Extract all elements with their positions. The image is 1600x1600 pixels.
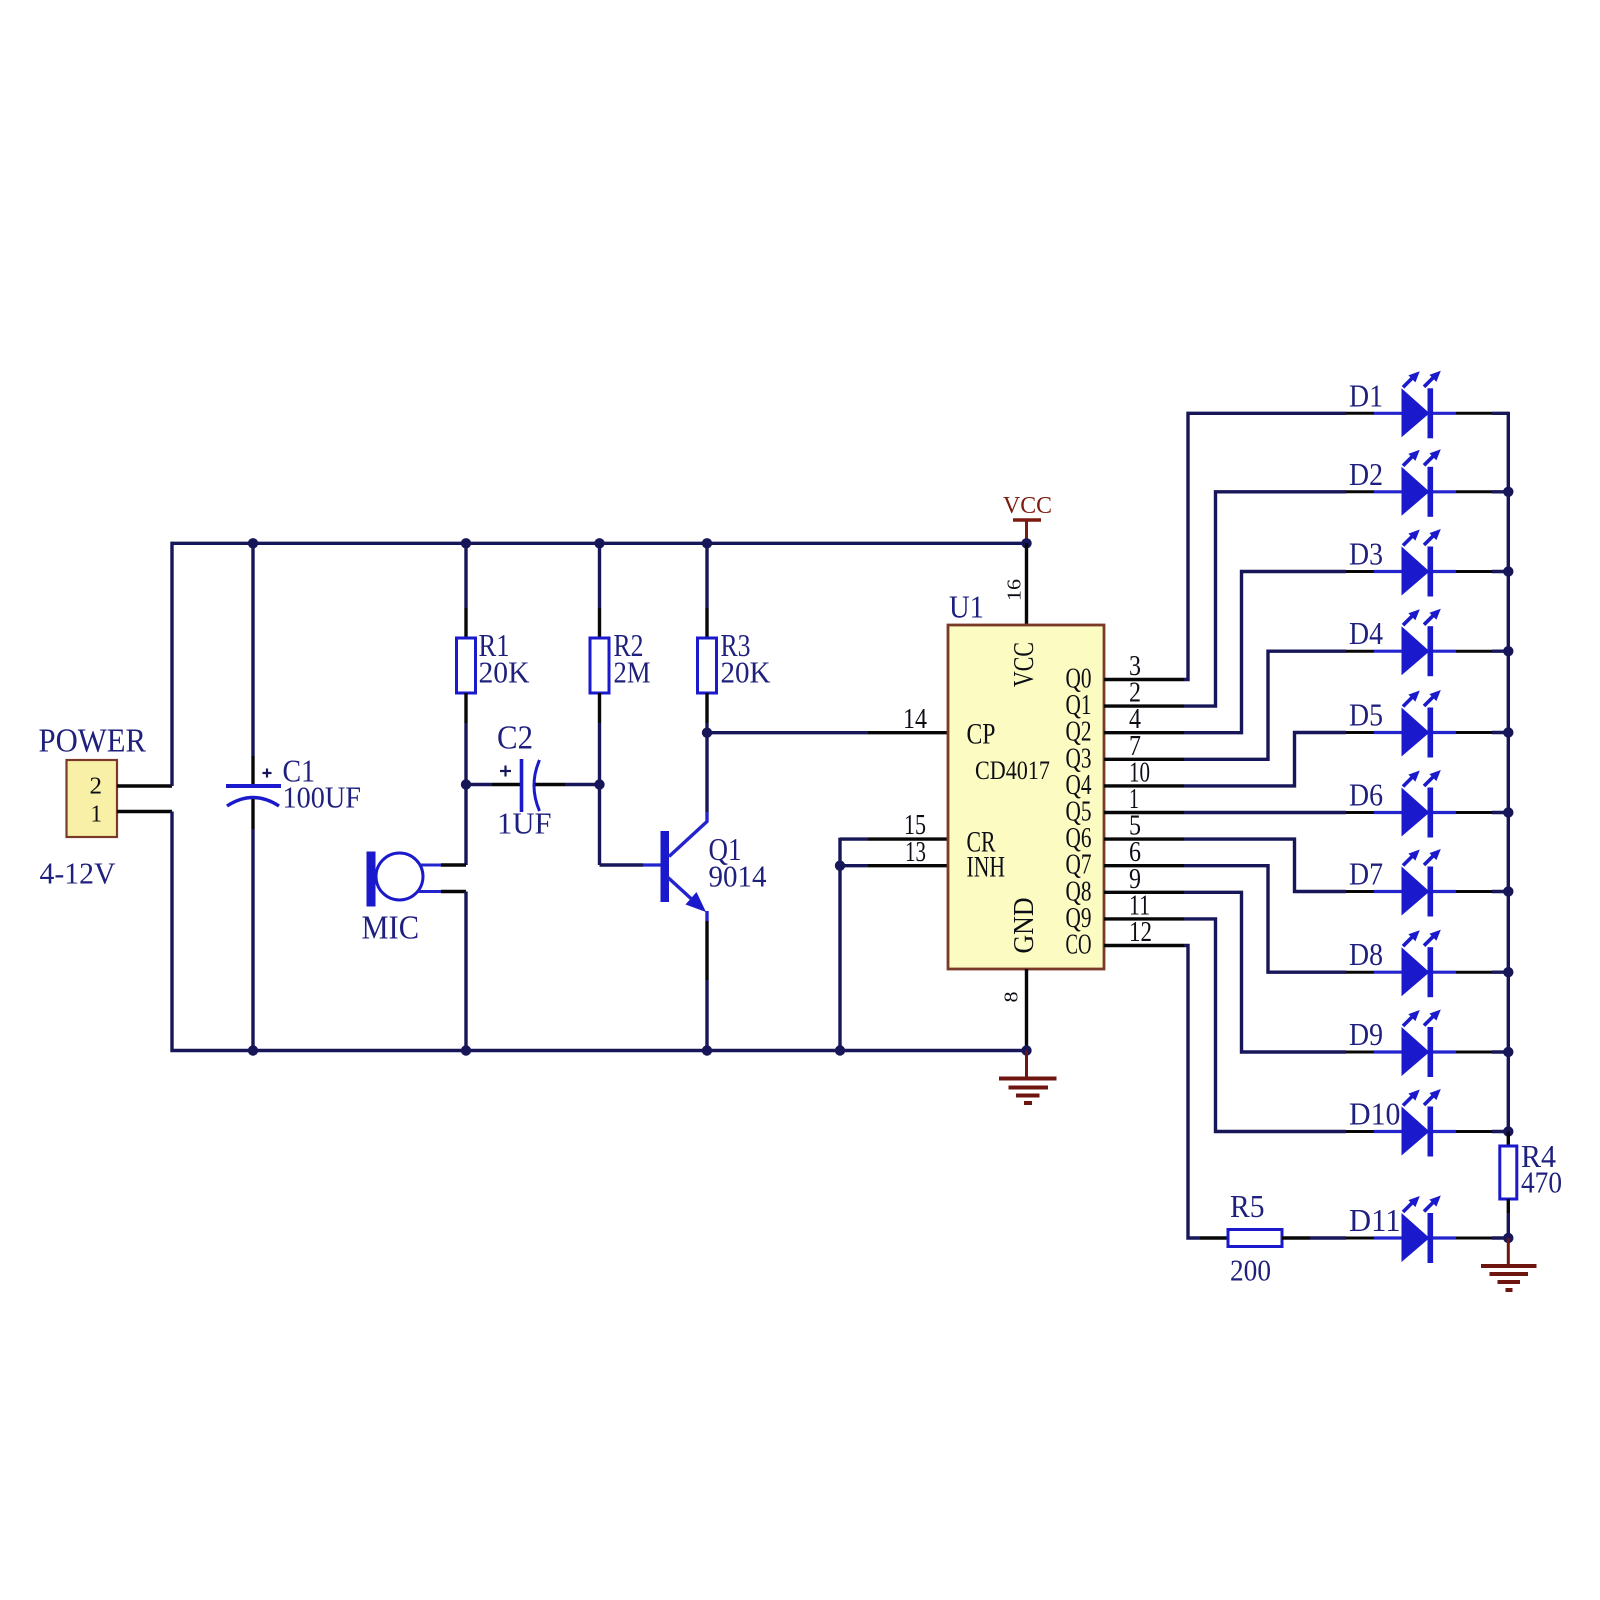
LED D2	[1346, 449, 1492, 517]
node top rail / R3	[702, 538, 712, 548]
wire R5 to D11	[1310, 1236, 1346, 1239]
node right rail / D10	[1503, 1126, 1513, 1136]
wire pin 11 route to D10	[1184, 919, 1346, 1132]
node right rail / D8	[1503, 967, 1513, 977]
U1 pin 6 stub	[1104, 864, 1184, 867]
wire D8 cathode to rail	[1492, 971, 1508, 974]
node R1 / C2 junction	[461, 779, 471, 789]
U1 pin 5 stub	[1104, 837, 1184, 840]
U1 pin 2 stub	[1104, 704, 1184, 707]
wire pin 2 route to D2	[1184, 492, 1346, 706]
node top rail / C1	[248, 538, 258, 548]
wire CR net	[840, 837, 868, 840]
ground symbol (right)	[1481, 1238, 1537, 1290]
wire C2 left net	[466, 783, 492, 786]
wire pin 3 route to D1	[1184, 413, 1346, 679]
node right rail / D9	[1503, 1047, 1513, 1057]
svg-text:12: 12	[1129, 917, 1152, 948]
connector POWER (2-pin header)	[67, 760, 118, 837]
wire pin 7 route to D4	[1184, 651, 1346, 759]
wire base row	[600, 863, 644, 866]
node right rail / D5	[1503, 727, 1513, 737]
U1 pin 4 stub	[1104, 731, 1184, 734]
svg-text:1: 1	[91, 802, 103, 828]
resistor R2	[590, 638, 609, 693]
node R3 / CP junction	[702, 728, 712, 738]
wire R1 to C2 junction	[464, 723, 467, 785]
node bottom rail / C1	[248, 1045, 258, 1055]
LED D7	[1346, 849, 1492, 917]
svg-text:13: 13	[905, 837, 926, 868]
R5 right pin stub	[1282, 1236, 1310, 1239]
svg-text:D8: D8	[1349, 936, 1383, 972]
node GND junction	[1021, 1045, 1031, 1055]
U1 pin 15 stub (CR)	[868, 837, 948, 840]
svg-text:VCC: VCC	[1009, 642, 1040, 687]
svg-text:POWER: POWER	[39, 723, 147, 760]
svg-text:9014: 9014	[709, 859, 767, 894]
node top rail / R2	[594, 538, 604, 548]
node right rail / D6	[1503, 807, 1513, 817]
capacitor C2 (1UF)	[522, 759, 540, 812]
wire connector pin1	[117, 810, 172, 813]
R3 bottom pin stub	[705, 693, 708, 723]
svg-text:D4: D4	[1349, 615, 1383, 651]
U1 pin 11 stub	[1104, 917, 1184, 920]
U1 pin 8 stub	[1025, 969, 1028, 1051]
U1 pin 13 stub (INH)	[868, 864, 948, 867]
svg-text:INH: INH	[967, 851, 1006, 884]
svg-text:D3: D3	[1349, 536, 1383, 572]
node right rail / D11	[1503, 1233, 1513, 1243]
svg-text:R5: R5	[1230, 1188, 1265, 1224]
LED D5	[1346, 690, 1492, 758]
R1 top pin stub	[464, 608, 467, 638]
wire MIC top stub	[441, 863, 466, 866]
node C2 / R2 junction	[594, 779, 604, 789]
svg-text:D6: D6	[1349, 777, 1383, 813]
wire right cathode rail	[1507, 412, 1510, 1132]
wire R4 to D11 node	[1507, 1213, 1510, 1238]
svg-text:16: 16	[1004, 579, 1026, 601]
wire D5 cathode to rail	[1492, 731, 1508, 734]
node VCC junction	[1021, 538, 1031, 548]
wire left vertical up	[170, 542, 173, 786]
wire pin 10 route to D5	[1184, 733, 1346, 786]
wire R3 to CP junction	[705, 723, 708, 733]
capacitor C1 (electrolytic, 100UF)	[226, 786, 281, 806]
wire pin 9 route to D9	[1184, 892, 1346, 1052]
wire D2 cathode to rail	[1492, 490, 1508, 493]
LED D1	[1346, 371, 1492, 439]
svg-text:D5: D5	[1349, 697, 1383, 733]
R1 bottom pin stub	[464, 693, 467, 723]
wire pin 12 route to R5	[1184, 946, 1200, 1239]
wire Q5 net to D6	[1184, 811, 1346, 814]
svg-text:C2: C2	[497, 720, 533, 757]
LED D6	[1346, 770, 1492, 838]
wire MIC bottom stub	[441, 890, 466, 893]
node bottom rail / MIC column	[461, 1045, 471, 1055]
svg-text:1UF: 1UF	[497, 806, 552, 841]
wire R3 junction down to Q1 collector	[705, 733, 708, 812]
LED D9	[1346, 1010, 1492, 1078]
LED D11	[1346, 1196, 1492, 1264]
C1 top pin stub	[251, 756, 254, 786]
svg-text:CO: CO	[1066, 930, 1092, 961]
wire connector pin2	[117, 784, 172, 787]
svg-text:D10: D10	[1349, 1096, 1401, 1132]
svg-text:4-12V: 4-12V	[40, 856, 117, 891]
R3 top pin stub	[705, 608, 708, 638]
wire pin 4 route to D3	[1184, 572, 1346, 733]
Q1 emitter stub	[705, 921, 708, 980]
U1 pin 10 stub	[1104, 784, 1184, 787]
wire R3 top net	[705, 543, 708, 608]
wire D4 cathode to rail	[1492, 650, 1508, 653]
svg-text:100UF: 100UF	[283, 780, 362, 815]
R5 left pin stub	[1200, 1236, 1228, 1239]
C2 polarity + mark	[500, 766, 511, 777]
microphone MIC	[367, 852, 442, 907]
wire CP net	[707, 731, 868, 734]
U1 pin 16 stub	[1025, 543, 1028, 625]
wire C2 right net	[565, 783, 600, 786]
U1 pin 14 stub (CP)	[868, 731, 948, 734]
svg-text:D9: D9	[1349, 1016, 1383, 1052]
U1 pin 9 stub	[1104, 891, 1184, 894]
U1 pin 12 stub	[1104, 944, 1184, 947]
R4 bottom pin stub	[1507, 1199, 1510, 1213]
svg-text:GND: GND	[1009, 898, 1040, 954]
wire C1 bottom net	[251, 829, 254, 1051]
LED D10	[1346, 1089, 1492, 1157]
wire bottom GND rail	[171, 1049, 1027, 1052]
node bottom rail / CR-INH column	[835, 1045, 845, 1055]
svg-text:CD4017: CD4017	[975, 756, 1050, 785]
wire left vertical down	[170, 812, 173, 1053]
svg-text:8: 8	[1001, 992, 1023, 1003]
node right rail / D2	[1503, 487, 1513, 497]
svg-text:U1: U1	[949, 589, 984, 625]
C2 right pin stub	[535, 783, 565, 786]
C1 polarity + mark	[263, 769, 272, 778]
U1 pin 1 stub	[1104, 811, 1184, 814]
resistor R4	[1500, 1146, 1517, 1199]
node right rail / D3	[1503, 566, 1513, 576]
svg-text:D11: D11	[1349, 1202, 1401, 1238]
node top rail / R1	[461, 538, 471, 548]
C1 bottom pin stub	[251, 799, 254, 829]
wire Q1 emitter to bottom rail	[705, 980, 708, 1051]
wire D3 cathode to rail	[1492, 570, 1508, 573]
wire D9 cathode to rail	[1492, 1050, 1508, 1053]
svg-text:D7: D7	[1349, 856, 1383, 892]
ground symbol (U1)	[999, 1051, 1057, 1104]
wire D7 cathode to rail	[1492, 890, 1508, 893]
wire INH net	[840, 864, 868, 867]
wire pin 6 route to D8	[1184, 866, 1346, 973]
wire D11 cathode to rail	[1492, 1236, 1508, 1239]
node bottom rail / Q1 emitter	[702, 1045, 712, 1055]
wire MIC column to bottom rail	[464, 892, 467, 1051]
wire R1 column down to MIC	[464, 785, 467, 866]
R2 top pin stub	[598, 608, 601, 638]
svg-text:200: 200	[1230, 1253, 1271, 1288]
svg-text:CP: CP	[967, 718, 996, 751]
wire D6 cathode to rail	[1492, 811, 1508, 814]
resistor R1	[457, 638, 476, 693]
node CR-INH tee	[835, 861, 845, 871]
wire top VCC rail	[171, 542, 1027, 545]
C2 left pin stub	[492, 783, 520, 786]
wire CR/INH column to bottom rail	[838, 838, 841, 1051]
svg-text:MIC: MIC	[362, 910, 420, 947]
R4 top pin stub	[1507, 1132, 1510, 1147]
resistor R3	[698, 638, 717, 693]
U1 pin 3 stub	[1104, 678, 1184, 681]
wire R2 column to base row	[598, 723, 601, 865]
svg-text:D1: D1	[1349, 377, 1383, 413]
resistor R5	[1228, 1230, 1282, 1247]
wire D10 cathode to rail	[1492, 1130, 1508, 1133]
svg-text:14: 14	[903, 704, 927, 735]
wire pin 5 route to D7	[1184, 839, 1346, 891]
wire R1 top net	[464, 543, 467, 608]
U1 pin 7 stub	[1104, 758, 1184, 761]
wire C1 top net	[251, 543, 254, 756]
svg-text:470: 470	[1521, 1165, 1562, 1200]
wire R2 top net	[598, 543, 601, 608]
svg-text:VCC: VCC	[1003, 493, 1052, 519]
R2 bottom pin stub	[598, 693, 601, 723]
node right rail / D7	[1503, 886, 1513, 896]
transistor Q1 (NPN 9014)	[643, 812, 707, 921]
LED D3	[1346, 529, 1492, 597]
svg-text:20K: 20K	[721, 655, 772, 690]
LED D8	[1346, 930, 1492, 998]
ic U1 CD4017 body	[948, 625, 1104, 969]
svg-text:20K: 20K	[479, 655, 531, 690]
svg-text:D2: D2	[1349, 456, 1383, 492]
svg-text:2: 2	[90, 774, 103, 800]
LED D4	[1346, 609, 1492, 677]
svg-text:2M: 2M	[614, 655, 651, 690]
wire D1 cathode to rail	[1492, 412, 1508, 415]
node right rail / D4	[1503, 646, 1513, 656]
power symbol VCC	[1003, 493, 1052, 543]
